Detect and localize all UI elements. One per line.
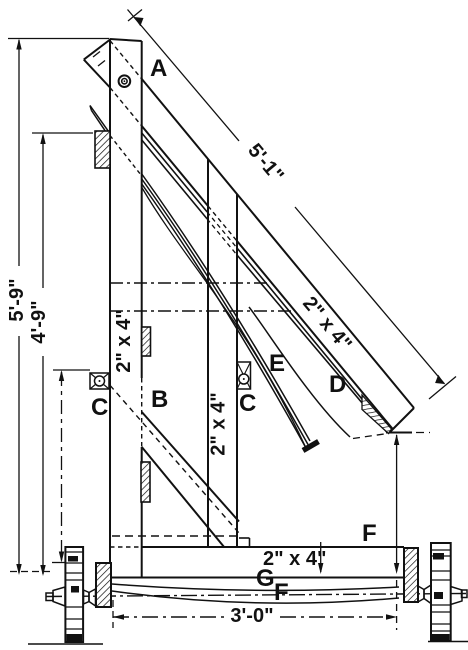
svg-text:2" x 4": 2" x 4" (113, 309, 135, 372)
svg-text:C: C (91, 394, 108, 421)
svg-text:E: E (269, 350, 285, 377)
svg-text:F: F (362, 520, 377, 547)
svg-text:3'-0": 3'-0" (230, 605, 273, 627)
svg-text:B: B (151, 386, 168, 413)
svg-text:C: C (239, 390, 256, 417)
svg-text:D: D (329, 371, 346, 398)
svg-text:2" x 4": 2" x 4" (208, 392, 230, 455)
svg-text:5'-9": 5'-9" (6, 278, 28, 321)
svg-text:G: G (256, 565, 275, 592)
svg-text:A: A (150, 55, 167, 82)
svg-text:4'-9": 4'-9" (28, 300, 50, 343)
svg-text:F: F (274, 579, 289, 606)
